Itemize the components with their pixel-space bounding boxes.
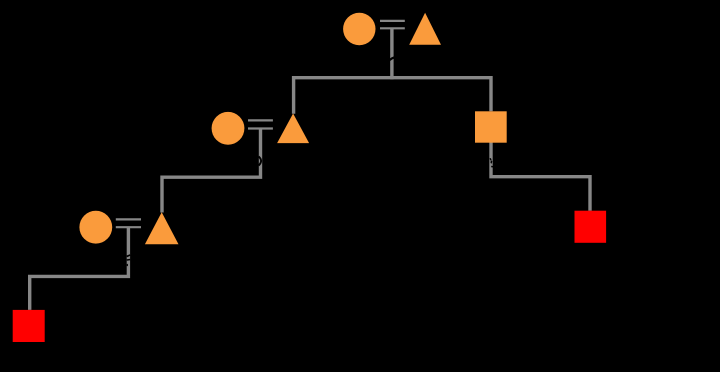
- label fragment mark3 on couple3 drop: [127, 255, 131, 266]
- marriage double line couple1 lower: [380, 27, 405, 29]
- label fragment mark4 on square P5 drop: [490, 158, 493, 167]
- wire couple2 drop to triangle P7: [162, 129, 261, 213]
- marriage double line couple3 lower: [116, 226, 141, 228]
- person P3 female circle gen2: [212, 112, 245, 145]
- person P6 female circle gen3: [79, 211, 112, 244]
- person P2 male triangle gen1: [409, 13, 441, 45]
- wire couple3 drop to red square P8: [30, 227, 129, 310]
- label fragment mark1 on couple1 drop: [390, 57, 395, 60]
- marriage double line couple2 lower: [248, 127, 273, 129]
- marriage double line couple1 upper: [380, 20, 405, 22]
- wire square P5 drop to red square P9: [491, 130, 590, 211]
- label fragment mark2 on couple2 drop: [259, 156, 262, 165]
- wire sibling bar with verticals to triangle P4 and square P5: [294, 78, 491, 114]
- person P1 female circle gen1: [343, 13, 375, 45]
- person P4 male triangle gen2: [277, 114, 309, 144]
- person P5 orange square gen2: [475, 111, 507, 142]
- person P9 red square gen3 right: [575, 211, 607, 243]
- marriage double line couple2 upper: [248, 119, 273, 121]
- person P7 male triangle gen3: [145, 212, 179, 244]
- person P8 red square gen4 left: [13, 310, 45, 342]
- marriage double line couple3 upper: [116, 218, 141, 220]
- wire couple1 drop to sibling bar: [390, 28, 393, 79]
